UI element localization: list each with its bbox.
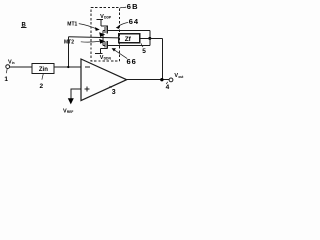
wire output drop vertical	[161, 38, 163, 79]
gate stub MT2	[103, 44, 105, 46]
label Vin	[8, 59, 15, 65]
wire op-amp output	[127, 79, 170, 81]
transistor MT2	[100, 41, 107, 54]
plus sign	[84, 86, 89, 91]
wire non-inverting input to VREF	[71, 89, 81, 98]
svg-text:66: 66	[127, 57, 137, 66]
terminal Vin	[6, 65, 10, 69]
wire Zin to op-amp inverting input	[54, 66, 81, 68]
label 4	[166, 84, 170, 91]
leader for 66	[114, 50, 127, 59]
figure label B	[22, 22, 27, 28]
label 3	[112, 89, 116, 96]
tick for 2	[42, 73, 44, 79]
svg-text:3: 3	[112, 89, 116, 96]
label MT2	[64, 40, 74, 46]
node output junction dot	[160, 78, 163, 81]
wire inverting node up	[67, 37, 69, 67]
node junction dot at inverting input	[67, 66, 69, 68]
underline of B	[21, 27, 27, 29]
leader for 3	[110, 86, 112, 88]
label 2	[40, 83, 44, 90]
terminal Vout circle	[169, 78, 173, 82]
svg-text:in: in	[12, 61, 15, 65]
leader for MT1	[79, 24, 96, 29]
svg-text:5: 5	[142, 48, 146, 55]
label MT1	[67, 21, 77, 27]
wire bottom rail (MT2 drain)	[107, 44, 150, 46]
wire rail join vertical	[149, 31, 151, 46]
wire top rail (MT1 drain)	[107, 30, 150, 32]
minus sign	[85, 66, 90, 68]
tick for 1	[5, 69, 8, 74]
label 5	[142, 48, 146, 55]
svg-text:DDP: DDP	[104, 15, 112, 19]
label Vout	[174, 73, 184, 79]
tick for 4	[166, 82, 168, 84]
label 1	[4, 76, 8, 83]
svg-text:6B: 6B	[127, 2, 139, 11]
op-amp U3 triangle	[81, 59, 127, 101]
supply VDDN label	[100, 55, 112, 61]
supply VDDN bar	[95, 53, 103, 55]
svg-text:DDN: DDN	[104, 56, 112, 60]
gate tie wire	[102, 30, 104, 45]
label 64	[129, 17, 139, 26]
arrowhead 66	[112, 48, 116, 51]
arrowhead MT1	[95, 27, 100, 31]
transistor MT1	[101, 19, 108, 33]
MT2 source arrow	[99, 39, 105, 44]
leader for 64	[119, 22, 129, 26]
svg-text:64: 64	[129, 17, 139, 26]
impedance Zin	[32, 64, 54, 74]
leader for 5	[141, 43, 143, 47]
svg-text:MT2: MT2	[64, 40, 74, 46]
gate stub MT1	[103, 29, 105, 31]
leader for MT2	[81, 40, 100, 43]
svg-text:4: 4	[166, 84, 170, 91]
wire inverting node to gates	[68, 37, 118, 38]
arrowhead 64	[116, 25, 120, 29]
svg-text:1: 1	[4, 76, 8, 83]
dashed box 6B (output stage boundary)	[91, 8, 120, 62]
wire Vin to Zin	[10, 66, 32, 68]
svg-text:Zin: Zin	[39, 67, 48, 73]
label VREF	[63, 109, 73, 115]
VREF arrow	[68, 98, 74, 104]
node junction dot at Zf output	[148, 37, 151, 40]
svg-text:2: 2	[40, 83, 44, 90]
impedance Zf	[119, 34, 140, 43]
svg-text:Zf: Zf	[125, 36, 132, 43]
supply VDDP label	[100, 14, 112, 20]
label 6B	[127, 2, 139, 11]
leader for 6B	[120, 7, 126, 8]
supply VDDP bar	[97, 18, 104, 20]
MT1 source arrow	[99, 32, 105, 37]
svg-text:MT1: MT1	[67, 21, 77, 27]
svg-text:REF: REF	[67, 110, 73, 114]
label 66	[127, 57, 137, 66]
wire Zf to output vertical	[140, 37, 163, 39]
